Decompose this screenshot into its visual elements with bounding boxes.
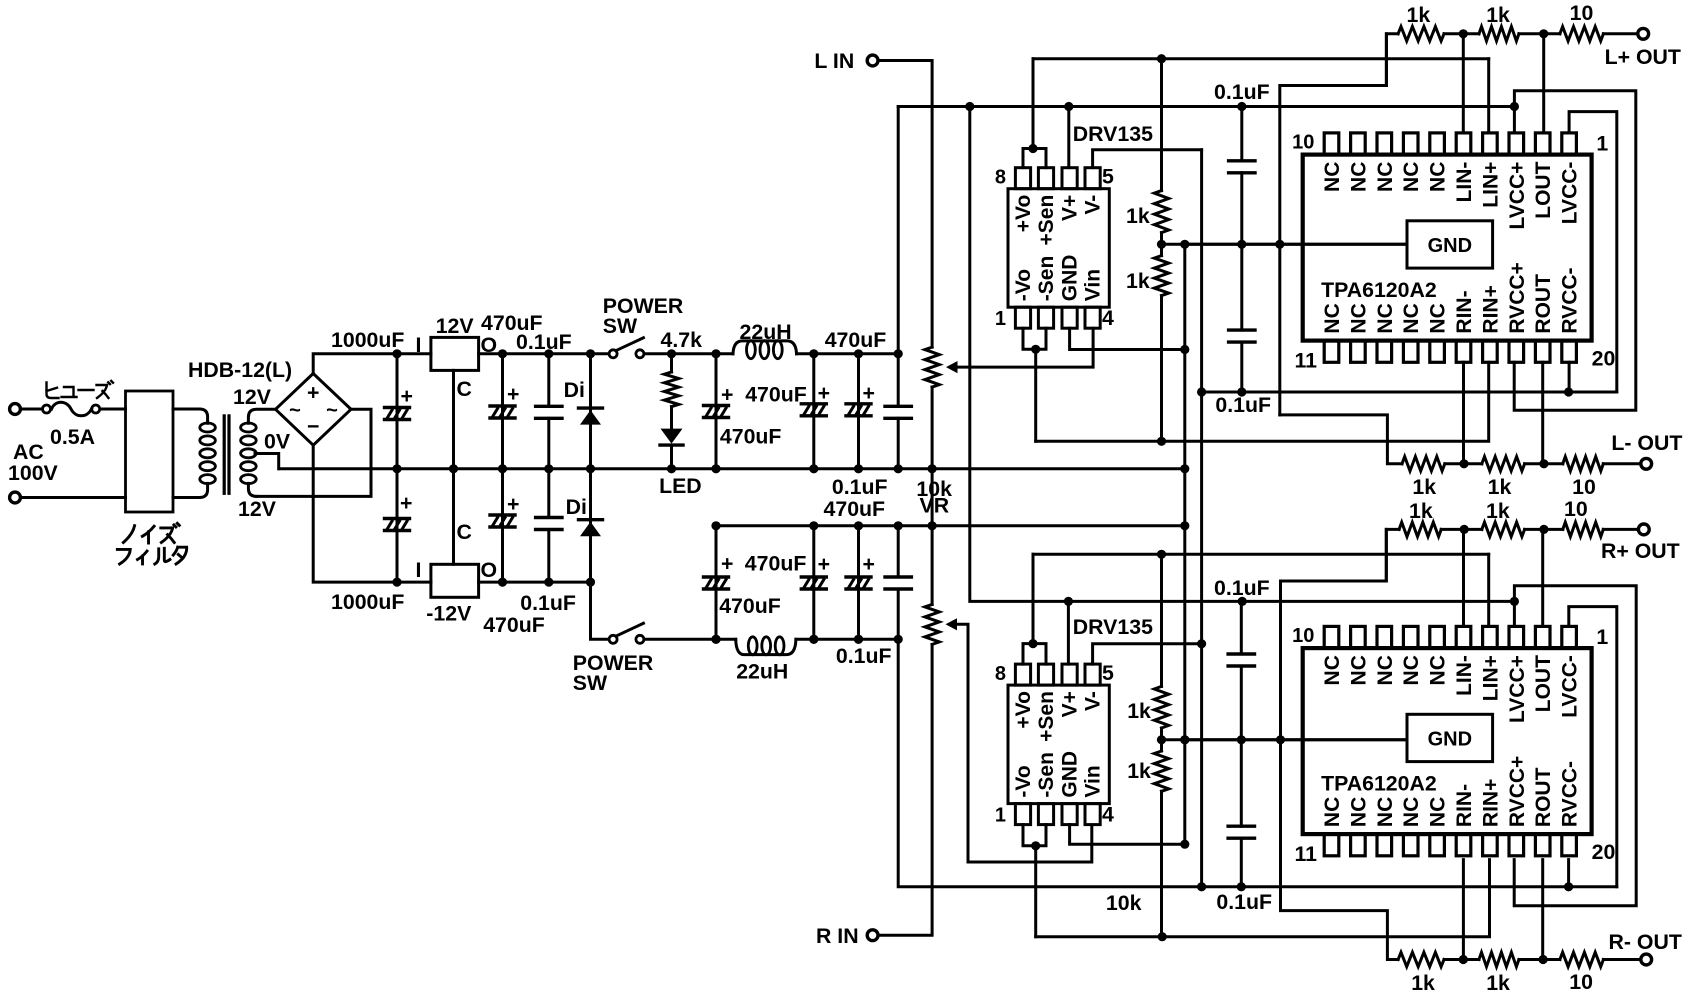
terminal L IN xyxy=(814,49,878,73)
wire VCC- line L xyxy=(1201,387,1617,396)
wire fb gnd leg R+ xyxy=(1281,529,1387,739)
wire GND bus xyxy=(1180,240,1189,849)
svg-text:NC: NC xyxy=(1321,797,1344,827)
svg-text:NC: NC xyxy=(1321,655,1344,685)
svg-text:+: + xyxy=(507,492,519,516)
svg-text:TPA6120A2: TPA6120A2 xyxy=(1321,278,1437,302)
svg-text:NC: NC xyxy=(1400,303,1423,333)
wire VCC+ loop L xyxy=(1514,91,1636,411)
wire +Vo line L xyxy=(1033,54,1489,63)
wire xyxy=(255,454,279,469)
svg-text:R IN: R IN xyxy=(816,924,859,948)
capacitor 0.1uF (L +12V) xyxy=(1214,80,1270,244)
capacitor 0.1uF (-12V out) xyxy=(836,521,912,668)
wire -12V rail xyxy=(479,581,591,584)
svg-text:LVCC+: LVCC+ xyxy=(1506,655,1529,723)
wire LOUT drop R xyxy=(1541,529,1544,626)
svg-text:LIN+: LIN+ xyxy=(1479,655,1502,701)
capacitor 470uF (-12V out b) xyxy=(824,497,886,644)
svg-text:Vin: Vin xyxy=(1082,269,1105,301)
wire xyxy=(1525,459,1563,468)
svg-text:NC: NC xyxy=(1347,655,1370,685)
svg-text:NC: NC xyxy=(1400,797,1423,827)
svg-text:NC: NC xyxy=(1347,162,1370,192)
svg-text:−: − xyxy=(307,415,319,439)
wire GND box L xyxy=(1185,243,1407,246)
svg-text:V-: V- xyxy=(1082,691,1105,711)
wire 0V rail (lower) xyxy=(716,524,1185,527)
svg-text:0.1uF: 0.1uF xyxy=(1214,576,1270,600)
wire xyxy=(1519,29,1560,38)
svg-text:20: 20 xyxy=(1592,840,1616,864)
fuse F1 0.5A xyxy=(43,381,114,449)
svg-text:RIN+: RIN+ xyxy=(1479,285,1502,333)
wire -Vo bracket R xyxy=(1023,825,1046,937)
svg-text:LVCC+: LVCC+ xyxy=(1506,162,1529,230)
svg-text:RIN-: RIN- xyxy=(1453,784,1476,827)
resistor 4.7k xyxy=(661,328,703,429)
capacitor 470uF (+12V) xyxy=(481,311,543,473)
wire -12V riser xyxy=(898,639,1617,891)
wire xyxy=(100,408,126,411)
svg-text:0.1uF: 0.1uF xyxy=(520,591,576,615)
svg-text:11: 11 xyxy=(1295,349,1318,373)
svg-text:L- OUT: L- OUT xyxy=(1611,431,1682,455)
svg-text:-Sen: -Sen xyxy=(1035,752,1058,798)
svg-text:1k: 1k xyxy=(1486,971,1510,994)
svg-text:-Vo: -Vo xyxy=(1012,765,1035,797)
wire xyxy=(1603,958,1639,961)
svg-text:+Vo: +Vo xyxy=(1012,691,1035,729)
svg-text:LOUT: LOUT xyxy=(1532,161,1555,218)
wire fb gnd leg L+ xyxy=(1280,34,1387,415)
svg-text:NC: NC xyxy=(1321,303,1344,333)
svg-text:L+ OUT: L+ OUT xyxy=(1605,45,1681,69)
svg-text:470uF: 470uF xyxy=(824,497,886,521)
wire +Vo bracket L xyxy=(1023,59,1046,168)
svg-text:1: 1 xyxy=(995,805,1006,827)
svg-text:20: 20 xyxy=(1592,347,1616,371)
svg-text:0.5A: 0.5A xyxy=(50,425,95,449)
svg-text:+: + xyxy=(818,552,830,576)
svg-text:LVCC-: LVCC- xyxy=(1559,655,1582,718)
svg-text:L IN: L IN xyxy=(814,49,854,73)
svg-text:+: + xyxy=(401,384,413,408)
wire xyxy=(1386,529,1399,581)
wire RIN- drop L xyxy=(1462,362,1465,464)
svg-text:R+ OUT: R+ OUT xyxy=(1601,539,1680,563)
transformer T1 HDB-12(L) xyxy=(173,358,292,521)
svg-text:11: 11 xyxy=(1295,842,1318,866)
svg-text:1k: 1k xyxy=(1126,204,1150,228)
bridge rectifier D1 xyxy=(276,374,352,446)
svg-text:8: 8 xyxy=(995,167,1006,189)
capacitor 470uF (pi filter -) xyxy=(704,521,807,644)
svg-text:NC: NC xyxy=(1347,303,1370,333)
wire GND line L xyxy=(1162,240,1408,249)
terminal AC line input (bottom) xyxy=(10,492,21,503)
wire GND pin L xyxy=(1070,328,1185,349)
svg-text:I: I xyxy=(416,333,422,357)
svg-text:NC: NC xyxy=(1374,797,1397,827)
potentiometer VR-R 10k xyxy=(925,526,957,645)
wire xyxy=(313,445,431,582)
svg-text:22uH: 22uH xyxy=(740,320,792,344)
svg-text:LIN-: LIN- xyxy=(1453,162,1476,203)
svg-text:NC: NC xyxy=(1427,303,1450,333)
svg-text:4: 4 xyxy=(1102,803,1114,827)
resistor 10 (L+ out) xyxy=(1560,1,1604,41)
wire xyxy=(1603,528,1637,531)
svg-text:470uF: 470uF xyxy=(825,328,887,352)
wire xyxy=(1525,525,1563,534)
svg-text:HDB-12(L): HDB-12(L) xyxy=(188,358,292,382)
svg-text:NC: NC xyxy=(1400,655,1423,685)
svg-text:12V: 12V xyxy=(238,497,277,521)
wire xyxy=(22,496,126,499)
wire LIN+ drop R xyxy=(1487,554,1490,626)
capacitor 470uF (+12V out a) xyxy=(801,349,830,473)
potentiometer VR-L 10k xyxy=(916,347,957,517)
label AC 100V xyxy=(8,440,59,485)
svg-text:8: 8 xyxy=(995,663,1006,685)
svg-text:ROUT: ROUT xyxy=(1532,274,1555,334)
svg-text:470uF: 470uF xyxy=(745,383,807,407)
svg-text:-Sen: -Sen xyxy=(1035,256,1058,302)
wire +12V rail L xyxy=(898,102,1514,111)
svg-text:10: 10 xyxy=(1570,1,1594,25)
wire fb gnd leg L- xyxy=(1280,415,1402,464)
svg-text:1k: 1k xyxy=(1411,971,1435,994)
regulator -12V xyxy=(416,520,498,626)
wire GND pin R xyxy=(1070,825,1185,845)
svg-text:+: + xyxy=(721,383,733,407)
wire -12V bus xyxy=(1197,150,1206,887)
svg-text:NC: NC xyxy=(1374,655,1397,685)
svg-text:LED: LED xyxy=(659,474,702,498)
wire GND line R xyxy=(1162,735,1408,744)
resistor 1k (R+ fb gnd) xyxy=(1399,499,1441,537)
resistor 1k (R+ fb) xyxy=(1482,499,1525,537)
svg-text:GND: GND xyxy=(1428,235,1472,257)
wire LIN- drop R xyxy=(1462,529,1465,626)
inductor 22uH (+12V) xyxy=(733,320,797,359)
wire -12V rail 2 xyxy=(644,635,898,644)
svg-text:+: + xyxy=(863,381,875,405)
op-amp U6 TPA6120A2 (R) xyxy=(1292,625,1615,866)
wire ROUT drop L xyxy=(1541,362,1544,464)
svg-text:0.1uF: 0.1uF xyxy=(832,475,888,499)
svg-text:DRV135: DRV135 xyxy=(1073,615,1153,639)
wire LIN+ drop xyxy=(1487,59,1490,133)
svg-text:NC: NC xyxy=(1400,162,1423,192)
wire xyxy=(1519,955,1560,964)
svg-text:GND: GND xyxy=(1059,255,1082,302)
wire xyxy=(22,408,43,411)
svg-text:1000uF: 1000uF xyxy=(331,590,404,614)
switch POWER SW (-12V) xyxy=(573,623,653,695)
svg-text:V+: V+ xyxy=(1059,691,1082,717)
svg-text:RVCC-: RVCC- xyxy=(1559,267,1582,333)
wire LVCC+ R xyxy=(1510,597,1519,627)
svg-text:SW: SW xyxy=(603,314,638,338)
wire RVCC- L xyxy=(1568,362,1571,392)
wire xyxy=(257,409,372,496)
svg-text:GND: GND xyxy=(1428,728,1472,750)
capacitor 1000uF (negative raw) xyxy=(331,469,412,614)
svg-text:5: 5 xyxy=(1102,661,1114,685)
svg-text:1k: 1k xyxy=(1488,475,1512,499)
svg-text:470uF: 470uF xyxy=(719,594,781,618)
svg-text:~: ~ xyxy=(326,400,338,422)
noise filter box xyxy=(117,391,186,564)
svg-text:1: 1 xyxy=(995,308,1006,330)
svg-text:10: 10 xyxy=(1564,497,1588,521)
svg-text:RIN-: RIN- xyxy=(1453,290,1476,333)
svg-text:10: 10 xyxy=(1292,132,1314,154)
svg-text:-12V: -12V xyxy=(426,602,472,626)
wire xyxy=(1603,462,1640,465)
capacitor 470uF (+12V out b) xyxy=(825,328,887,473)
svg-text:4: 4 xyxy=(1102,306,1114,330)
wire VR-R wiper xyxy=(957,624,1092,862)
svg-text:DRV135: DRV135 xyxy=(1073,122,1153,146)
svg-text:TPA6120A2: TPA6120A2 xyxy=(1321,772,1437,796)
capacitor 1000uF (positive raw) xyxy=(331,328,413,473)
wire GND box R xyxy=(1185,738,1407,741)
svg-text:NC: NC xyxy=(1374,303,1397,333)
svg-text:4.7k: 4.7k xyxy=(661,328,703,352)
resistor 1k (L divider bottom) xyxy=(1126,233,1169,442)
svg-text:10k: 10k xyxy=(1106,891,1142,915)
svg-text:C: C xyxy=(457,520,472,544)
wire -Vo line L xyxy=(1036,362,1489,446)
svg-text:RVCC+: RVCC+ xyxy=(1506,756,1529,827)
svg-text:NC: NC xyxy=(1427,797,1450,827)
svg-text:+Vo: +Vo xyxy=(1012,195,1035,233)
op-amp U5 DRV135 (R) xyxy=(995,615,1153,827)
wire xyxy=(591,582,609,639)
svg-text:0V: 0V xyxy=(264,430,291,454)
wire -Vo line R xyxy=(1036,860,1490,942)
op-amp U3 DRV135 (L) xyxy=(995,122,1153,330)
svg-text:NC: NC xyxy=(1427,655,1450,685)
wire C pins xyxy=(449,370,458,564)
wire +Vo bracket R xyxy=(1023,554,1046,664)
svg-text:470uF: 470uF xyxy=(720,425,782,449)
svg-text:NC: NC xyxy=(1321,162,1344,192)
svg-text:0.1uF: 0.1uF xyxy=(1214,80,1270,104)
resistor 1k (L- fb) xyxy=(1482,457,1525,499)
capacitor 0.1uF (L -12V) xyxy=(1215,244,1271,417)
resistor 1k (R divider top) xyxy=(1127,554,1169,728)
svg-text:Vin: Vin xyxy=(1082,765,1105,797)
svg-text:1k: 1k xyxy=(1126,269,1150,293)
svg-text:1k: 1k xyxy=(1127,699,1151,723)
svg-text:O: O xyxy=(481,558,498,582)
wire +Vo line R xyxy=(1033,550,1489,559)
svg-text:10: 10 xyxy=(1292,625,1314,647)
svg-text:470uF: 470uF xyxy=(483,613,545,637)
wire -Vo bracket L xyxy=(1023,328,1046,441)
wire VCC+ loop R xyxy=(1514,586,1636,906)
svg-text:0.1uF: 0.1uF xyxy=(1216,890,1272,914)
regulator +12V xyxy=(416,314,498,401)
svg-text:10: 10 xyxy=(1572,475,1596,499)
wire V- R xyxy=(1093,644,1202,664)
resistor 1k (R divider bottom) xyxy=(1127,728,1169,937)
resistor 1k (R- fb) xyxy=(1479,952,1519,994)
wire xyxy=(1445,459,1482,468)
inductor 22uH (-12V) xyxy=(736,637,796,684)
svg-text:+: + xyxy=(863,552,875,576)
wire xyxy=(879,61,932,348)
svg-text:12V: 12V xyxy=(436,314,475,338)
svg-text:1k: 1k xyxy=(1127,759,1151,783)
terminal R IN xyxy=(816,924,878,948)
terminal L- OUT xyxy=(1611,431,1682,469)
wire xyxy=(313,354,431,374)
terminal R- OUT xyxy=(1609,930,1682,965)
svg-text:V+: V+ xyxy=(1059,195,1082,221)
svg-text:470uF: 470uF xyxy=(745,552,807,576)
resistor 1k (L divider top) xyxy=(1126,59,1169,233)
svg-text:VR: VR xyxy=(920,494,950,518)
capacitor 470uF (-12V out a) xyxy=(801,521,830,644)
wire LVCC+ L xyxy=(1510,102,1519,133)
wire ROUT drop R xyxy=(1541,860,1544,960)
svg-text:1k: 1k xyxy=(1412,475,1436,499)
svg-text:I: I xyxy=(416,558,422,582)
wire xyxy=(1444,955,1479,964)
svg-text:R- OUT: R- OUT xyxy=(1609,930,1682,954)
svg-text:+: + xyxy=(818,381,830,405)
resistor 1k (L+ fb) xyxy=(1479,3,1519,41)
svg-text:LVCC-: LVCC- xyxy=(1559,162,1582,225)
svg-text:0.1uF: 0.1uF xyxy=(516,330,572,354)
svg-text:1k: 1k xyxy=(1407,3,1431,27)
svg-text:1k: 1k xyxy=(1409,499,1433,523)
svg-text:1: 1 xyxy=(1596,625,1608,649)
resistor 1k (R- fb gnd) xyxy=(1398,952,1444,994)
svg-text:SW: SW xyxy=(573,671,608,695)
wire V- L xyxy=(1093,150,1202,168)
switch POWER SW (+12V) xyxy=(603,294,683,358)
svg-text:0.1uF: 0.1uF xyxy=(1215,393,1271,417)
svg-text:+: + xyxy=(507,382,519,406)
wire V+ L xyxy=(1067,107,1070,168)
svg-text:NC: NC xyxy=(1427,162,1450,192)
wire xyxy=(1444,29,1479,38)
terminal R+ OUT xyxy=(1601,524,1680,563)
op-amp U4 TPA6120A2 (L) xyxy=(1292,132,1615,373)
svg-text:+: + xyxy=(721,552,733,576)
wire +12V rail xyxy=(479,352,899,355)
svg-text:12V: 12V xyxy=(233,385,272,409)
resistor 1k (L+ fb gnd) xyxy=(1398,3,1444,41)
svg-text:+Sen: +Sen xyxy=(1035,691,1058,742)
wire RIN- drop R xyxy=(1462,860,1465,960)
capacitor 0.1uF (R +12V) xyxy=(1214,576,1270,740)
wire RVCC- R xyxy=(1567,860,1570,887)
diode Di (+12V) xyxy=(564,349,603,473)
svg-text:+Sen: +Sen xyxy=(1035,195,1058,246)
svg-text:RVCC-: RVCC- xyxy=(1559,761,1582,827)
svg-text:10: 10 xyxy=(1569,970,1593,994)
wire LVCC- loop L xyxy=(1569,112,1617,392)
svg-text:1000uF: 1000uF xyxy=(331,328,404,352)
svg-text:V-: V- xyxy=(1082,195,1105,215)
wire xyxy=(879,645,932,936)
wire +12V riser xyxy=(897,107,900,354)
svg-text:5: 5 xyxy=(1102,165,1114,189)
wire xyxy=(928,469,937,531)
wire 0V rail xyxy=(279,467,1185,470)
svg-text:RVCC+: RVCC+ xyxy=(1506,262,1529,333)
svg-text:LIN+: LIN+ xyxy=(1479,162,1502,208)
capacitor 0.1uF (-12V) xyxy=(520,469,576,615)
svg-text:NC: NC xyxy=(1347,797,1370,827)
resistor 10 (L- out) xyxy=(1563,457,1604,499)
diode Di (-12V) xyxy=(566,469,603,587)
svg-text:~: ~ xyxy=(289,400,301,422)
capacitor 470uF (pi filter +) xyxy=(704,349,807,473)
svg-text:Di: Di xyxy=(566,495,587,519)
svg-text:GND: GND xyxy=(1059,751,1082,798)
resistor 10 (R+ out) xyxy=(1563,497,1604,537)
svg-text:RIN+: RIN+ xyxy=(1479,779,1502,827)
svg-text:LIN-: LIN- xyxy=(1453,655,1476,696)
svg-text:+: + xyxy=(400,491,412,515)
resistor 10 (R- out) xyxy=(1560,952,1604,994)
svg-text:Di: Di xyxy=(564,378,585,402)
wire xyxy=(1386,34,1398,86)
resistor 1k (L- fb gnd) xyxy=(1402,457,1445,499)
svg-text:ROUT: ROUT xyxy=(1532,767,1555,827)
wire xyxy=(1441,525,1482,534)
label 10k input R xyxy=(1106,891,1142,915)
capacitor 0.1uF (+12V) xyxy=(516,330,572,473)
svg-text:1k: 1k xyxy=(1486,3,1510,27)
wire V+ R xyxy=(1067,601,1070,664)
svg-text:22uH: 22uH xyxy=(736,659,788,683)
svg-text:1k: 1k xyxy=(1486,499,1510,523)
terminal L+ OUT xyxy=(1605,28,1681,69)
wire LVCC- loop R xyxy=(1569,607,1617,887)
capacitor 470uF (-12V) xyxy=(483,469,545,637)
svg-text:1: 1 xyxy=(1596,132,1608,156)
capacitor 0.1uF (+12V out) xyxy=(832,349,912,499)
wire xyxy=(1603,32,1636,35)
svg-text:0.1uF: 0.1uF xyxy=(836,644,892,668)
svg-text:+: + xyxy=(307,381,319,405)
wire +12V drop to R xyxy=(970,107,1515,607)
wire LOUT drop xyxy=(1542,34,1545,133)
svg-text:NC: NC xyxy=(1374,162,1397,192)
svg-text:LOUT: LOUT xyxy=(1532,655,1555,712)
terminal AC line input (top) xyxy=(10,404,21,415)
wire VR-L wiper xyxy=(958,328,1094,367)
wire fb gnd leg R- xyxy=(1281,740,1399,960)
capacitor 0.1uF (R -12V) xyxy=(1216,740,1272,914)
svg-text:100V: 100V xyxy=(8,461,59,485)
wire LIN- drop xyxy=(1462,34,1465,133)
svg-text:-Vo: -Vo xyxy=(1012,269,1035,301)
LED xyxy=(659,429,702,498)
svg-text:C: C xyxy=(457,377,472,401)
